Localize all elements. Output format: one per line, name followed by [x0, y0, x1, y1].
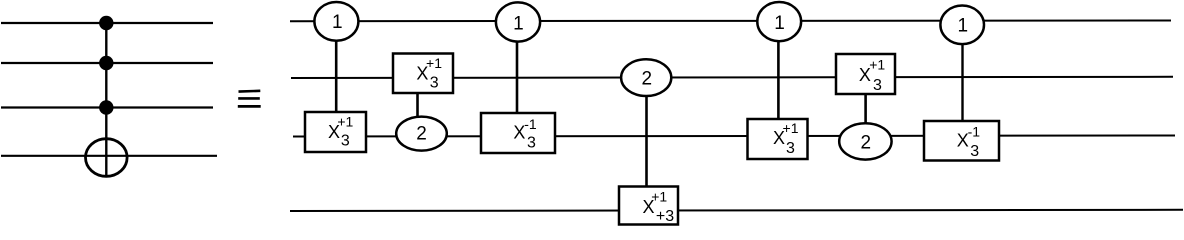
svg-text:1: 1 [513, 13, 524, 34]
wire right q2 [293, 136, 1175, 137]
control dot 2 [99, 56, 113, 70]
svg-text:+1: +1 [651, 188, 667, 204]
wire left q3 [1, 155, 217, 157]
gate box X3+1 (wire 2, gate 2) [393, 54, 453, 94]
svg-text:+1: +1 [426, 55, 442, 71]
svg-text:3: 3 [430, 74, 439, 91]
control oval 2 (gate 4, wire 2) [621, 59, 671, 96]
svg-text:-1: -1 [968, 124, 981, 140]
svg-text:3: 3 [970, 143, 979, 160]
svg-text:+1: +1 [337, 113, 353, 129]
wire left q0 [1, 22, 213, 24]
connector C3 circle2-box3 [516, 22, 519, 133]
svg-text:3: 3 [527, 134, 536, 151]
connector C1 circle1-box1 [335, 21, 338, 132]
gate box X+3+1 (gate 4 target, wire 4) [619, 187, 678, 225]
svg-text:1: 1 [774, 13, 785, 34]
connector C6 box6-oval3 [864, 74, 867, 141]
svg-text:3: 3 [786, 140, 795, 157]
svg-text:2: 2 [861, 132, 872, 153]
control circle 1 (gate 7) [940, 6, 984, 45]
control oval 2 (gate 2 control, wire 3) [396, 117, 447, 151]
svg-text:+3: +3 [656, 208, 674, 225]
gate box X3-1 (gate 3 target, wire 3) [481, 113, 555, 153]
svg-text:2: 2 [416, 124, 427, 145]
wire left q2 [1, 106, 213, 108]
gate box X3+1 (gate 1 target, wire 3) [305, 112, 366, 152]
control circle 1 (gate 5) [757, 2, 801, 41]
wire right q0 [290, 20, 1171, 23]
wire right q1 [291, 77, 1173, 78]
svg-text:+1: +1 [869, 57, 885, 73]
svg-text:1: 1 [958, 16, 969, 37]
svg-text:3: 3 [873, 77, 882, 94]
svg-text:+1: +1 [783, 120, 799, 136]
wire control vertical [105, 23, 107, 176]
connector C7 circle4-box7 [961, 25, 963, 141]
connector C4 oval2-box4 [645, 78, 648, 206]
gate box X3+1 (gate 5 target, wire 3) [748, 119, 808, 159]
equivalence symbol [238, 91, 261, 107]
connector C5 circle3-box5 [777, 22, 780, 139]
control dot 3 [99, 100, 113, 114]
control circle 1 (gate 1) [314, 2, 358, 41]
control dot 1 [99, 16, 113, 30]
control circle 1 (gate 3) [496, 2, 540, 41]
connector C2 box2-oval1 [416, 73, 419, 133]
gate box X3+1 (wire 2, gate 6) [836, 54, 895, 94]
CNOT target circle [86, 139, 128, 177]
svg-text:-1: -1 [524, 116, 537, 132]
wire left q1 [1, 62, 213, 64]
control oval 2 (gate 6 control, wire 3) [839, 123, 891, 159]
svg-text:2: 2 [642, 68, 653, 89]
gate box X3-1 (gate 7 target, wire 3) [924, 121, 999, 161]
svg-text:3: 3 [341, 133, 350, 150]
wire right q3 [290, 210, 1183, 211]
svg-text:1: 1 [332, 12, 343, 33]
